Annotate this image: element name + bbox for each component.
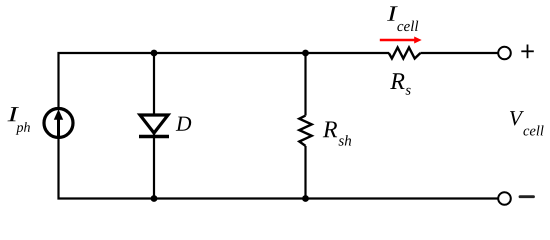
wire Rsh branch bottom bbox=[304, 146, 306, 199]
label Rsh bbox=[323, 121, 351, 145]
minus sign bbox=[520, 195, 534, 198]
wire top: left corner to series resistor bbox=[59, 53, 390, 108]
wire top: resistor to + terminal bbox=[420, 52, 498, 54]
wire bottom bbox=[59, 139, 499, 199]
current source Iph circle bbox=[44, 109, 73, 138]
node: junction dot diode bottom bbox=[151, 195, 158, 202]
label Iph bbox=[7, 107, 29, 135]
node: junction dot Rsh top bbox=[302, 50, 309, 57]
node: junction dot diode top bbox=[151, 50, 158, 57]
label Icell bbox=[387, 6, 418, 31]
node: junction dot Rsh bottom bbox=[302, 195, 309, 202]
wire Rsh branch top bbox=[304, 53, 306, 116]
terminal + circle bbox=[498, 47, 511, 60]
resistor Rsh (shunt, vertical zigzag) bbox=[299, 116, 311, 146]
label D bbox=[176, 117, 191, 131]
resistor Rs (series, horizontal zigzag) bbox=[389, 48, 421, 59]
label Rs bbox=[390, 73, 410, 94]
plus sign bbox=[521, 45, 534, 59]
current arrow Icell (red) bbox=[380, 39, 415, 42]
wire diode branch bbox=[153, 53, 155, 199]
current source arrow (up) bbox=[57, 118, 60, 137]
diode D cathode bar bbox=[139, 135, 169, 139]
label Vcell bbox=[510, 111, 544, 135]
diode D triangle bbox=[140, 115, 168, 133]
terminal - circle bbox=[498, 192, 511, 205]
